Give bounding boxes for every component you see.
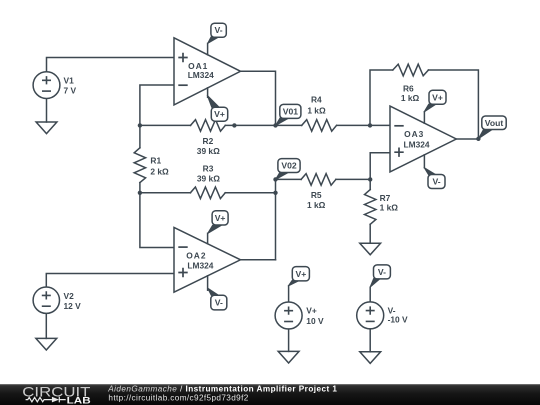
svg-text:2 kΩ: 2 kΩ — [150, 167, 169, 177]
junction node R5/R7/OA3+ — [368, 177, 372, 181]
resistor R2 39k — [191, 120, 226, 157]
svg-text:V+: V+ — [306, 305, 317, 315]
svg-text:1 kΩ: 1 kΩ — [307, 200, 326, 210]
svg-text:R7: R7 — [380, 193, 391, 203]
node V02 — [273, 159, 300, 182]
node flag V+ of OA2 — [208, 211, 228, 234]
resistor R1 2k — [134, 125, 169, 192]
svg-text:V-: V- — [215, 25, 223, 35]
junction node R1 bottom — [138, 191, 142, 195]
svg-text:-10 V: -10 V — [388, 314, 408, 324]
wire OA3 output — [456, 138, 478, 140]
ground G1 — [36, 122, 57, 134]
footer bar — [0, 384, 540, 405]
svg-text:LAB: LAB — [67, 396, 91, 405]
svg-text:LM324: LM324 — [404, 139, 430, 149]
junction node R1 top — [138, 123, 142, 127]
wire R1 to OA2 - input — [140, 193, 174, 248]
node flag V- of OA1 — [208, 23, 227, 43]
svg-text:Vout: Vout — [485, 118, 504, 128]
svg-text:LM324: LM324 — [188, 70, 214, 80]
wire R3 row — [140, 192, 276, 194]
wire V1 to OA1 + input — [47, 58, 175, 72]
svg-text:12 V: 12 V — [64, 301, 82, 311]
svg-text:1 kΩ: 1 kΩ — [307, 105, 326, 115]
node flag V- of OA2 — [208, 288, 227, 310]
svg-text:R4: R4 — [311, 95, 322, 105]
wire V+ flag to source — [288, 286, 290, 302]
wire R5 row — [276, 178, 371, 180]
wire R2 row — [140, 124, 390, 126]
svg-text:R2: R2 — [203, 136, 214, 146]
footer title text — [107, 385, 337, 394]
label V- -10 V — [388, 305, 408, 324]
svg-text:1 kΩ: 1 kΩ — [380, 203, 399, 213]
node flag V+ of OA1 — [207, 95, 227, 121]
voltage source V+ 10V — [275, 302, 302, 329]
resistor R5 1k — [301, 174, 336, 211]
resistor R4 1k — [302, 95, 337, 132]
node Vout — [478, 116, 506, 139]
junction node Vout — [476, 137, 480, 141]
svg-text:V+: V+ — [215, 213, 226, 223]
svg-text:http://circuitlab.com/c92f5pd7: http://circuitlab.com/c92f5pd73d9f2 — [108, 393, 248, 402]
svg-text:V-: V- — [215, 298, 223, 308]
node flag V- of OA3 — [424, 168, 445, 189]
CircuitLab logo — [22, 383, 91, 405]
svg-text:10 V: 10 V — [306, 316, 324, 326]
svg-text:V1: V1 — [64, 76, 75, 86]
voltage source V- -10V — [357, 302, 384, 329]
junction node R6 left — [368, 123, 372, 127]
node flag V+ supply — [288, 267, 309, 286]
wire V- flag to source — [369, 287, 371, 302]
svg-text:V02: V02 — [281, 161, 297, 171]
resistor R6 1k — [393, 64, 429, 103]
svg-text:39 kΩ: 39 kΩ — [197, 146, 220, 156]
wire OA3 + input — [370, 153, 390, 180]
voltage source V2 — [33, 287, 59, 313]
voltage source V1 — [33, 72, 60, 99]
op-amp OA2 LM324 — [174, 227, 241, 292]
label V2 12 V — [64, 291, 82, 311]
svg-text:7 V: 7 V — [64, 85, 77, 95]
ground G2 — [360, 243, 381, 255]
svg-text:AidenGammache / Instrumentatio: AidenGammache / Instrumentation Amplifie… — [107, 385, 337, 394]
svg-text:V01: V01 — [283, 106, 299, 116]
svg-text:V+: V+ — [432, 92, 443, 102]
resistor R7 1k — [365, 179, 399, 243]
wire V1 to ground — [46, 98, 48, 122]
svg-text:LM324: LM324 — [187, 260, 213, 270]
svg-text:1 kΩ: 1 kΩ — [401, 93, 420, 103]
ground G5 — [360, 352, 381, 364]
wire V+ source to ground — [288, 329, 290, 351]
svg-text:R5: R5 — [311, 190, 322, 200]
resistor R3 39k — [190, 164, 225, 199]
node flag V+ of OA3 — [424, 90, 446, 112]
label V+ 10 V — [306, 305, 324, 326]
svg-text:V-: V- — [432, 177, 440, 187]
wire V2 to ground — [45, 313, 47, 338]
ground G4 — [278, 351, 299, 363]
wire V- source to ground — [369, 329, 371, 352]
junction node R3 right — [273, 191, 277, 195]
wire V2 to OA2 + input — [46, 274, 174, 288]
footer url text — [108, 393, 248, 402]
node flag V- supply — [370, 265, 390, 287]
op-amp OA1 LM324 — [174, 38, 241, 105]
wire OA1 output to V01 — [241, 71, 276, 125]
ground G3 — [36, 338, 57, 350]
svg-text:V2: V2 — [64, 291, 75, 301]
wire R6 feedback loop — [370, 70, 478, 139]
svg-text:R1: R1 — [150, 156, 161, 166]
svg-text:39 kΩ: 39 kΩ — [197, 173, 220, 183]
wire OA1 - input feedback — [140, 85, 174, 125]
svg-text:OA3: OA3 — [404, 129, 424, 139]
svg-text:V-: V- — [378, 267, 386, 277]
label V1 7 V — [64, 76, 77, 96]
op-amp OA3 LM324 — [390, 106, 456, 172]
svg-text:V+: V+ — [296, 269, 307, 279]
svg-text:R3: R3 — [203, 164, 214, 174]
wire OA2 output riser — [241, 179, 276, 259]
svg-text:V+: V+ — [214, 109, 225, 119]
node V01 — [273, 104, 301, 127]
svg-text:OA2: OA2 — [186, 251, 206, 261]
junction node R2 right — [232, 123, 236, 127]
